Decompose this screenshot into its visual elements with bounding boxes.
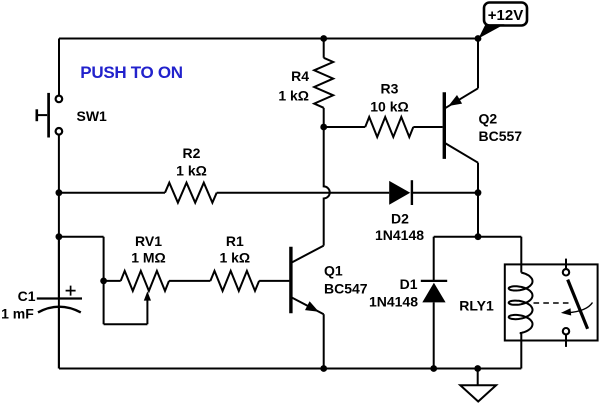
node junction D1 / bottom rail — [430, 365, 437, 372]
node junction D2 wire / collector — [475, 189, 482, 196]
ground — [460, 369, 496, 402]
svg-text:1 MΩ: 1 MΩ — [131, 249, 166, 265]
svg-text:D1: D1 — [400, 276, 418, 292]
wire Q2 emitter to +12V node — [477, 39, 479, 89]
svg-text:BC557: BC557 — [479, 128, 523, 144]
svg-text:R3: R3 — [381, 81, 399, 97]
svg-text:SW1: SW1 — [77, 108, 108, 124]
svg-text:1 kΩ: 1 kΩ — [219, 249, 250, 265]
power +12V label — [478, 3, 527, 39]
wire left rail upper (top rail to SW1) — [58, 39, 60, 96]
svg-text:1N4148: 1N4148 — [369, 293, 418, 309]
svg-text:D2: D2 — [391, 211, 409, 227]
svg-text:C1: C1 — [18, 288, 36, 304]
wire R4 bottom lead — [323, 108, 325, 127]
wire relay branch horizontal — [478, 236, 521, 238]
wire D1 top lead — [433, 237, 435, 281]
node junction top rail / R4 — [320, 35, 327, 42]
svg-text:BC547: BC547 — [324, 281, 368, 297]
wire vertical with hop over R2 wire — [324, 127, 330, 246]
wire RV1 wiper stem — [146, 300, 148, 324]
svg-text:R1: R1 — [226, 233, 244, 249]
wire D2 to Q2 collector — [411, 192, 478, 194]
wire R3 to Q2 base — [413, 126, 442, 128]
wire bottom rail — [59, 368, 521, 370]
svg-text:10 kΩ: 10 kΩ — [370, 98, 408, 114]
wire RV1 to R1 — [169, 280, 210, 282]
svg-text:Q2: Q2 — [479, 110, 498, 126]
switch SW1 — [37, 93, 62, 138]
wire R2 left segment — [59, 192, 165, 194]
svg-text:R2: R2 — [183, 145, 201, 161]
wire C1 branch horizontal — [59, 236, 104, 238]
node junction R4 / R3 / collector wire — [320, 124, 327, 131]
wire relay coil top lead — [520, 237, 522, 273]
relay RLY1 — [505, 259, 598, 369]
svg-text:Q1: Q1 — [324, 263, 343, 279]
wire left rail lower (SW1 to bottom rail) — [58, 134, 60, 368]
capacitor C1 — [37, 237, 82, 369]
node junction Q1 emitter / bottom rail — [320, 365, 327, 372]
wire R3 left lead — [324, 126, 366, 128]
node junction D1 branch / relay branch — [475, 233, 482, 240]
wire Q1 emitter to bottom rail — [323, 314, 325, 368]
resistor R2 — [165, 183, 217, 203]
potentiometer RV1 — [121, 271, 169, 291]
wire R1 to Q1 base — [259, 280, 289, 282]
wire D1 bottom lead — [433, 302, 435, 368]
transistor Q1 — [291, 246, 324, 315]
node junction ground / bottom rail — [474, 365, 481, 372]
RV1 wiper arrow — [144, 291, 151, 300]
wire top rail from SW1 to +12V node — [59, 38, 478, 40]
svg-text:PUSH TO ON: PUSH TO ON — [80, 63, 183, 82]
resistor R3 — [365, 117, 413, 137]
wire RV1 left terminal — [104, 280, 121, 282]
svg-text:R4: R4 — [291, 68, 309, 84]
svg-text:1 mF: 1 mF — [1, 306, 34, 322]
wire R4 top lead — [323, 39, 325, 58]
resistor R1 — [210, 271, 259, 291]
svg-text:RV1: RV1 — [135, 233, 162, 249]
resistor R4 — [314, 58, 333, 108]
node junction left rail / C1 branch — [56, 233, 63, 240]
wire R2 to D2 — [217, 192, 390, 194]
svg-text:1 kΩ: 1 kΩ — [176, 162, 207, 178]
svg-text:1N4148: 1N4148 — [375, 227, 424, 243]
node junction RV1 left terminal — [100, 278, 107, 285]
diode D1 — [421, 281, 447, 303]
wire RV1 left vertical — [103, 237, 105, 325]
diode D2 — [389, 180, 412, 205]
wire D1 branch horizontal — [434, 236, 478, 238]
node junction top rail / +12V — [475, 35, 482, 42]
wire Q2 collector vertical — [477, 163, 479, 237]
wire RV1 wiper bottom — [104, 323, 148, 325]
svg-text:1 kΩ: 1 kΩ — [278, 87, 309, 103]
node junction left rail / R2 wire — [56, 189, 63, 196]
svg-text:+12V: +12V — [488, 7, 523, 24]
transistor Q2 — [444, 88, 478, 162]
svg-text:RLY1: RLY1 — [459, 298, 494, 314]
